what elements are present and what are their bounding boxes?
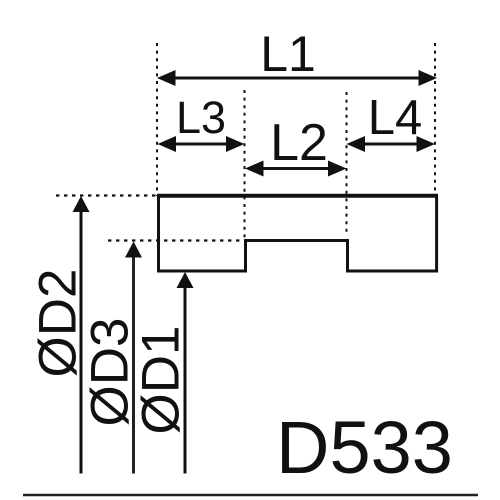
- extension line H1 (ØD2 level, y=195.5): [56, 194, 158, 196]
- dimension arrow L3: [158, 136, 245, 152]
- extension line V2 (x=244.5): [244, 90, 246, 241]
- part outline (bridge-shaped cross-section): [159, 196, 437, 271]
- dimension arrow L1: [157, 70, 437, 86]
- svg-text:D533: D533: [276, 406, 453, 489]
- svg-text:L4: L4: [368, 91, 423, 145]
- svg-text:L2: L2: [270, 114, 328, 172]
- extension line H2 (ØD3 level, y=240.5): [108, 239, 245, 241]
- svg-text:ØD1: ØD1: [132, 326, 191, 435]
- dimension arrow L2: [245, 161, 347, 177]
- svg-text:ØD2: ØD2: [29, 269, 88, 378]
- bottom rule: [23, 494, 478, 497]
- extension line V1 (left, x=157): [156, 43, 158, 196]
- part top edge (thicker): [157, 194, 438, 198]
- svg-text:L1: L1: [260, 26, 316, 82]
- dimension arrow L4: [347, 136, 436, 152]
- diameter arrow D1 (vertical, x=185): [177, 272, 194, 474]
- extension line V4 (right, x=435): [434, 43, 436, 196]
- diameter arrow D3 (vertical, x=133.5): [125, 242, 142, 474]
- extension line V3 (x=346.5): [346, 92, 348, 236]
- svg-text:L3: L3: [176, 92, 226, 143]
- diameter arrow D2 (vertical, x=81): [73, 196, 90, 474]
